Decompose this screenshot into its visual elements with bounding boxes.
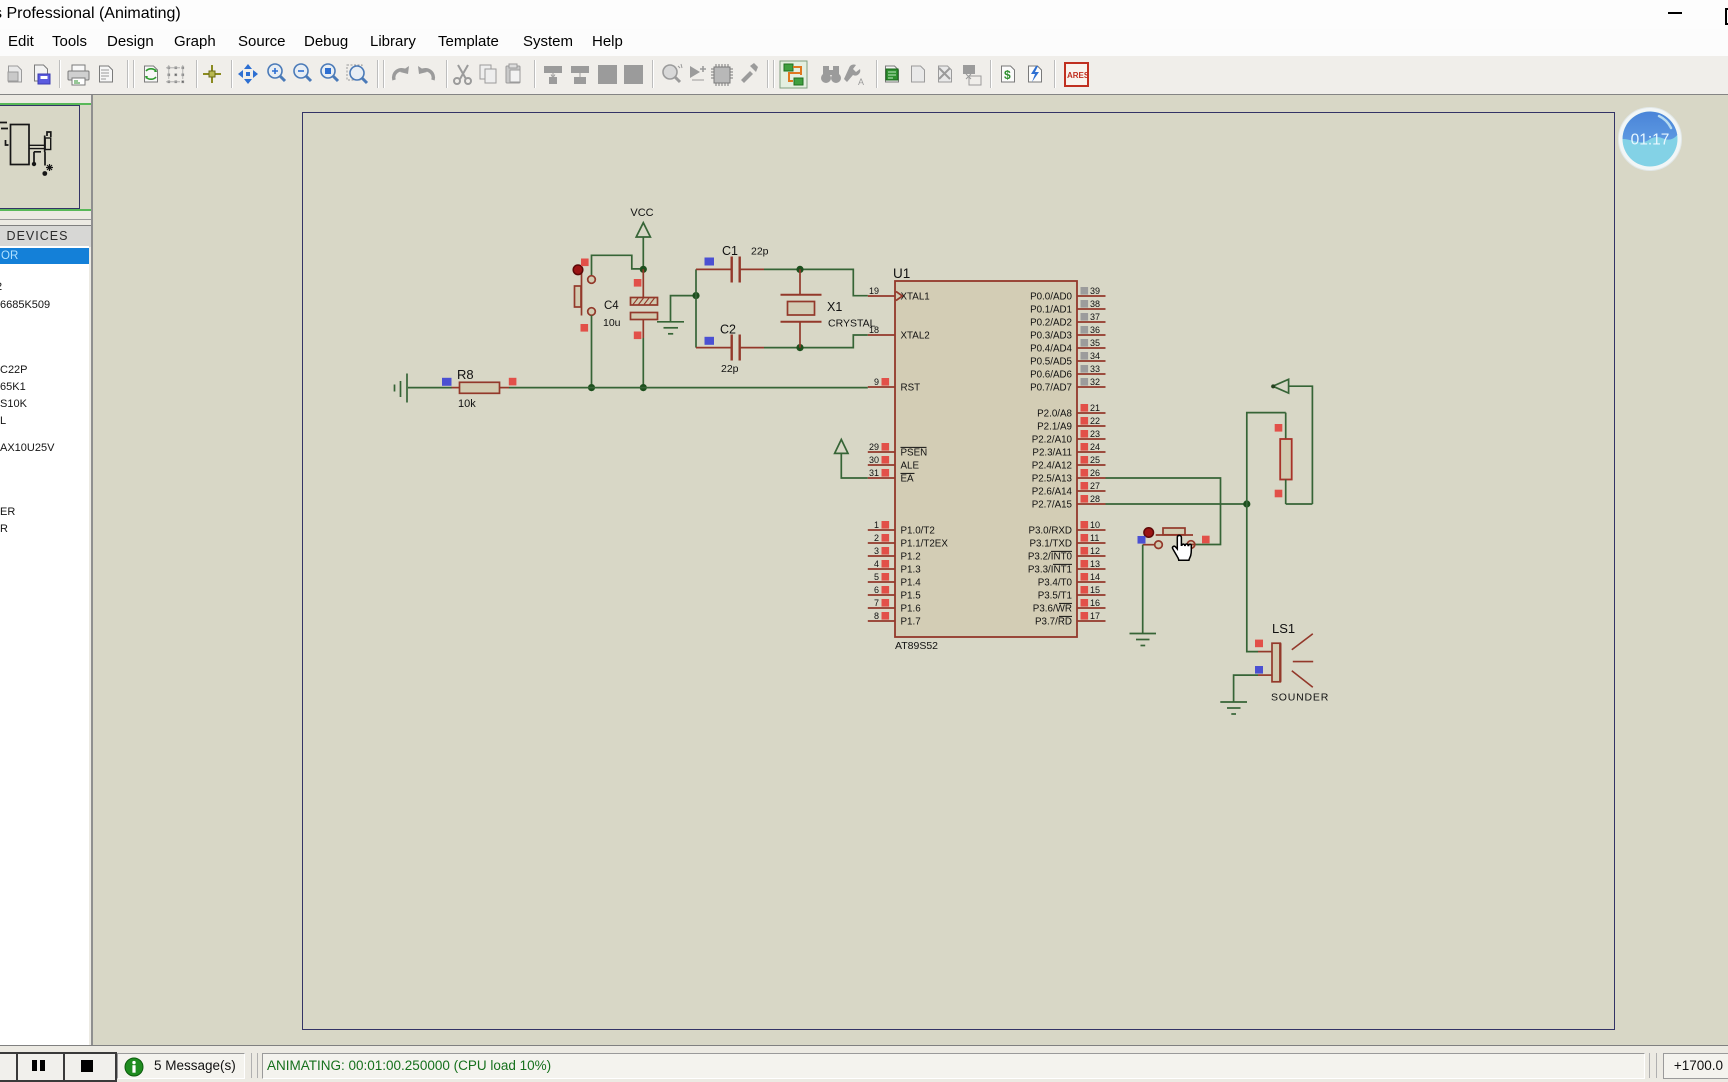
- U1 pin 10 P3.0/RXD: [1028, 520, 1105, 537]
- svg-text:ALE: ALE: [901, 461, 920, 472]
- U1 pin 3 P1.2: [868, 546, 921, 563]
- U1 pin 16 P3.6/WR: [1033, 598, 1106, 615]
- svg-text:29: 29: [869, 442, 879, 452]
- svg-text:1: 1: [874, 520, 879, 530]
- svg-text:01:17: 01:17: [1631, 132, 1670, 149]
- U1 pin 4 P1.3: [868, 559, 921, 576]
- crystal X1: [781, 269, 822, 347]
- wire C1 to XTAL1: [764, 269, 868, 295]
- svg-text:SOUNDER: SOUNDER: [1271, 692, 1329, 704]
- svg-text:3: 3: [874, 546, 879, 556]
- state square button top: [581, 259, 589, 267]
- svg-text:23: 23: [1090, 429, 1100, 439]
- U1 pin 9 RST: [868, 377, 920, 394]
- svg-text:P1.5: P1.5: [901, 591, 922, 602]
- state square C2 left (blue): [705, 337, 715, 345]
- svg-text:P3.1/TXD: P3.1/TXD: [1030, 539, 1072, 550]
- state square R8 left (blue): [442, 378, 452, 386]
- svg-text:P0.2/AD2: P0.2/AD2: [1030, 318, 1072, 329]
- svg-text:P2.5/A13: P2.5/A13: [1032, 474, 1073, 485]
- U1 pin 2 P1.1/T2EX: [868, 533, 949, 550]
- junction P2.7 node: [1243, 500, 1250, 507]
- svg-text:P3.4/T0: P3.4/T0: [1038, 578, 1073, 589]
- svg-text:P1.1/T2EX: P1.1/T2EX: [901, 539, 949, 550]
- wire ground to R8: [408, 387, 452, 389]
- node XTAL left: [692, 292, 699, 299]
- wire P2.5 to button2: [1106, 478, 1221, 545]
- wire node down to C2: [695, 296, 697, 348]
- sounder LS1: [1258, 634, 1313, 687]
- push button (reset): [573, 265, 595, 316]
- U1 pin 8 P1.7: [868, 611, 921, 628]
- wire node up to C1: [695, 269, 697, 295]
- svg-text:16: 16: [1090, 598, 1100, 608]
- svg-text:4: 4: [874, 559, 879, 569]
- U1 pin 38 P0.1/AD1: [1030, 299, 1105, 316]
- state square C1 left (blue): [705, 258, 715, 266]
- svg-text:19: 19: [869, 286, 879, 296]
- terminal arrow: [1273, 379, 1289, 393]
- svg-text:R8: R8: [457, 367, 474, 382]
- U1 pin 18 XTAL2: [868, 325, 930, 342]
- XTAL1 clock mark: [896, 292, 903, 301]
- svg-text:25: 25: [1090, 455, 1100, 465]
- svg-text:P3.0/RXD: P3.0/RXD: [1028, 526, 1072, 537]
- U1 pin 30 ALE: [868, 455, 920, 472]
- svg-text:10k: 10k: [458, 398, 476, 410]
- svg-text:22p: 22p: [751, 246, 769, 258]
- U1 pin 24 P2.3/A11: [1032, 442, 1105, 459]
- svg-text:P2.1/A9: P2.1/A9: [1037, 422, 1072, 433]
- state square C4 bottom: [634, 332, 642, 340]
- svg-text:LS1: LS1: [1272, 621, 1295, 636]
- svg-text:9: 9: [874, 377, 879, 387]
- junction C4/RST: [640, 384, 647, 391]
- wire P2.7 to junction: [1106, 503, 1247, 505]
- svg-text:P3.3/INT1: P3.3/INT1: [1028, 565, 1072, 576]
- U1 pin 28 P2.7/A15: [1032, 494, 1106, 511]
- wire VCC to EA pin: [841, 453, 868, 478]
- svg-text:C4: C4: [604, 300, 619, 312]
- wire VCC arrow to junction: [642, 237, 644, 269]
- svg-text:5: 5: [874, 572, 879, 582]
- ground (LS1): [1220, 702, 1247, 714]
- svg-text:6: 6: [874, 585, 879, 595]
- ground (XTAL): [657, 322, 684, 334]
- U1 pin 19 XTAL1: [868, 286, 930, 303]
- svg-text:14: 14: [1090, 572, 1100, 582]
- state square LS1 bottom (blue): [1255, 666, 1263, 674]
- U1 pin 31 EA: [868, 468, 915, 485]
- capacitor C1: [732, 257, 764, 283]
- svg-text:P0.7/AD7: P0.7/AD7: [1030, 383, 1072, 394]
- svg-text:18: 18: [869, 325, 879, 335]
- state square C4 top: [634, 279, 642, 287]
- resistor (P2.7 branch): [1280, 413, 1292, 504]
- U1 pin 36 P0.3/AD3: [1030, 325, 1105, 342]
- U1 pin 1 P1.0/T2: [868, 520, 935, 537]
- wire button2 pins: [1187, 544, 1195, 546]
- svg-text:P2.0/A8: P2.0/A8: [1037, 409, 1072, 420]
- svg-text:P1.2: P1.2: [901, 552, 921, 563]
- svg-text:37: 37: [1090, 312, 1100, 322]
- svg-text:P2.6/A14: P2.6/A14: [1032, 487, 1073, 498]
- svg-text:21: 21: [1090, 403, 1100, 413]
- svg-text:P3.2/INT0: P3.2/INT0: [1028, 552, 1073, 563]
- U1 pin 13 P3.3/INT1: [1028, 559, 1106, 576]
- wire resistor bottom rail: [1286, 503, 1313, 505]
- U1 pin 5 P1.4: [868, 572, 921, 589]
- svg-text:P1.4: P1.4: [901, 578, 922, 589]
- wire C2 to XTAL2: [764, 335, 868, 348]
- resistor R8: [452, 382, 510, 393]
- U1 pin 11 P3.1/TXD: [1030, 533, 1106, 550]
- svg-text:P3.5/T1: P3.5/T1: [1038, 591, 1072, 602]
- svg-text:10u: 10u: [603, 317, 621, 329]
- svg-text:P2.7/A15: P2.7/A15: [1032, 500, 1073, 511]
- svg-text:P0.4/AD4: P0.4/AD4: [1030, 344, 1072, 355]
- push button (P2.5): [1144, 528, 1195, 549]
- svg-text:34: 34: [1090, 351, 1100, 361]
- svg-text:15: 15: [1090, 585, 1100, 595]
- capacitor C4: [631, 269, 658, 338]
- svg-text:39: 39: [1090, 286, 1100, 296]
- capacitor C2: [732, 335, 764, 361]
- wire junction to LS1: [1247, 504, 1258, 652]
- svg-text:EA: EA: [901, 474, 915, 485]
- terminal arrow endpoint: [1271, 384, 1275, 388]
- svg-text:P2.4/A12: P2.4/A12: [1032, 461, 1072, 472]
- U1 pin 23 P2.2/A10: [1032, 429, 1106, 446]
- svg-text:XTAL1: XTAL1: [901, 292, 930, 303]
- U1 pin 39 P0.0/AD0: [1030, 286, 1105, 303]
- wire XTAL ground link: [671, 296, 697, 321]
- svg-text:8: 8: [874, 611, 879, 621]
- svg-text:P1.6: P1.6: [901, 604, 922, 615]
- U1 pin 35 P0.4/AD4: [1030, 338, 1105, 355]
- junction VCC/C4/button: [640, 266, 647, 273]
- power symbol VCC: [636, 223, 650, 237]
- svg-text:AT89S52: AT89S52: [895, 640, 938, 652]
- svg-text:33: 33: [1090, 364, 1100, 374]
- U1 pin 15 P3.5/T1: [1038, 585, 1106, 602]
- svg-text:22: 22: [1090, 416, 1100, 426]
- svg-text:10: 10: [1090, 520, 1100, 530]
- svg-text:35: 35: [1090, 338, 1100, 348]
- U1 pin 34 P0.5/AD5: [1030, 351, 1105, 368]
- svg-text:22p: 22p: [721, 363, 739, 375]
- state square resistor top: [1275, 424, 1283, 432]
- svg-text:24: 24: [1090, 442, 1100, 452]
- svg-text:P0.5/AD5: P0.5/AD5: [1030, 357, 1072, 368]
- svg-text:28: 28: [1090, 494, 1100, 504]
- svg-text:26: 26: [1090, 468, 1100, 478]
- U1 pin 29 PSEN: [868, 442, 927, 459]
- svg-text:32: 32: [1090, 377, 1100, 387]
- svg-text:C1: C1: [722, 244, 738, 258]
- state square button2 right: [1202, 536, 1210, 544]
- wire RST rail: [509, 387, 868, 389]
- U1 pin 37 P0.2/AD2: [1030, 312, 1105, 329]
- junction button/RST: [588, 384, 595, 391]
- svg-text:31: 31: [869, 468, 879, 478]
- svg-text:13: 13: [1090, 559, 1100, 569]
- mouse cursor (hand): [1172, 535, 1191, 560]
- junction C2/X1: [796, 344, 803, 351]
- clock overlay 01:17: [1619, 108, 1682, 171]
- wire button to RST rail: [591, 315, 593, 387]
- svg-text:P0.6/AD6: P0.6/AD6: [1030, 370, 1072, 381]
- state square button bottom: [581, 324, 589, 332]
- svg-text:27: 27: [1090, 481, 1100, 491]
- U1 pin 25 P2.4/A12: [1032, 455, 1106, 472]
- svg-text:C2: C2: [720, 323, 736, 337]
- U1 pin 21 P2.0/A8: [1037, 403, 1105, 420]
- U1 pin 26 P2.5/A13: [1032, 468, 1106, 485]
- svg-text:P0.1/AD1: P0.1/AD1: [1030, 305, 1072, 316]
- wire button to VCC junction: [592, 255, 641, 275]
- svg-text:P1.7: P1.7: [901, 617, 921, 628]
- power symbol VCC (EA): [835, 440, 848, 454]
- state square LS1 top: [1255, 640, 1263, 648]
- ground (reset pulldown): [395, 374, 408, 403]
- svg-text:P0.0/AD0: P0.0/AD0: [1030, 292, 1072, 303]
- wire C4 to RST rail: [642, 338, 644, 388]
- svg-text:17: 17: [1090, 611, 1100, 621]
- junction C1/X1: [796, 266, 803, 273]
- svg-text:X1: X1: [827, 300, 842, 314]
- svg-text:P1.0/T2: P1.0/T2: [901, 526, 935, 537]
- svg-text:VCC: VCC: [630, 207, 653, 219]
- U1 pin 17 P3.7/RD: [1035, 611, 1106, 628]
- svg-text:2: 2: [874, 533, 879, 543]
- U1 pin 7 P1.6: [868, 598, 921, 615]
- svg-text:P3.6/WR: P3.6/WR: [1033, 604, 1072, 615]
- wire LS1 to ground: [1234, 675, 1258, 701]
- svg-text:P0.3/AD3: P0.3/AD3: [1030, 331, 1072, 342]
- wire to terminal arrow: [1289, 386, 1313, 504]
- U1 pin 14 P3.4/T0: [1038, 572, 1106, 589]
- IC U1 AT89S52 body: [895, 281, 1077, 637]
- state square button2 left (blue): [1138, 536, 1146, 544]
- svg-text:7: 7: [874, 598, 879, 608]
- svg-text:38: 38: [1090, 299, 1100, 309]
- wire button2 to ground: [1142, 545, 1144, 633]
- svg-text:RST: RST: [901, 383, 921, 394]
- state square resistor bottom: [1275, 490, 1283, 498]
- svg-text:P2.3/A11: P2.3/A11: [1032, 448, 1072, 459]
- state square R8 right: [509, 378, 517, 386]
- svg-text:36: 36: [1090, 325, 1100, 335]
- ground (button2): [1130, 634, 1157, 646]
- svg-text:P1.3: P1.3: [901, 565, 922, 576]
- svg-text:PSEN: PSEN: [901, 448, 928, 459]
- svg-text:XTAL2: XTAL2: [901, 331, 930, 342]
- svg-text:30: 30: [869, 455, 879, 465]
- svg-text:12: 12: [1090, 546, 1100, 556]
- U1 pin 32 P0.7/AD7: [1030, 377, 1105, 394]
- U1 pin 6 P1.5: [868, 585, 921, 602]
- U1 pin 33 P0.6/AD6: [1030, 364, 1105, 381]
- U1 pin 12 P3.2/INT0: [1028, 546, 1106, 563]
- U1 pin 22 P2.1/A9: [1037, 416, 1105, 433]
- svg-text:P3.7/RD: P3.7/RD: [1035, 617, 1072, 628]
- U1 pin 27 P2.6/A14: [1032, 481, 1106, 498]
- svg-text:U1: U1: [893, 266, 910, 281]
- svg-text:11: 11: [1090, 533, 1099, 543]
- wire resistor top branch: [1247, 413, 1286, 504]
- svg-text:P2.2/A10: P2.2/A10: [1032, 435, 1073, 446]
